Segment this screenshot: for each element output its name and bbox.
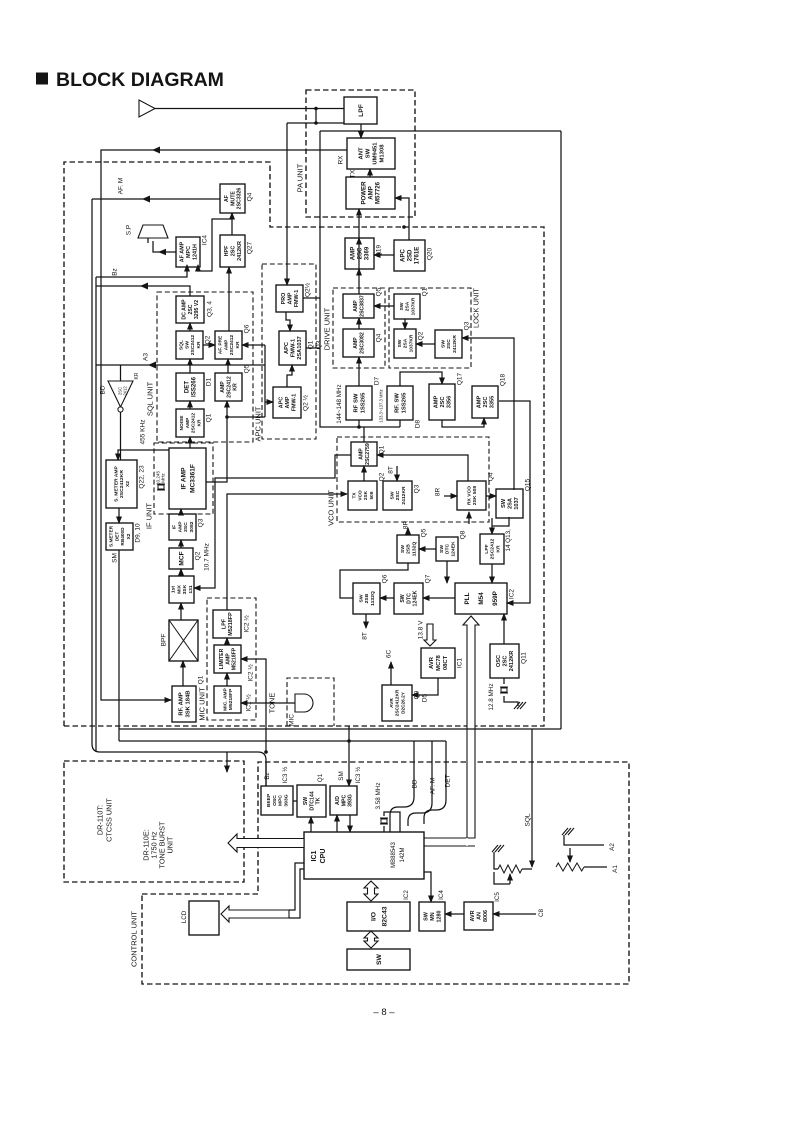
svg-text:A2: A2 [609, 843, 616, 851]
svg-text:IC2: IC2 [403, 890, 410, 900]
svg-text:IC2 ½: IC2 ½ [246, 664, 254, 682]
svg-text:DET: DET [444, 774, 451, 787]
svg-text:D1: D1 [205, 377, 212, 386]
svg-text:AMP2SC3369: AMP2SC3369 [350, 246, 371, 260]
svg-text:D8: D8 [414, 419, 421, 428]
svg-text:Q6: Q6 [381, 574, 388, 583]
svg-text:3.58 MHz: 3.58 MHz [375, 783, 382, 810]
svg-text:BPF: BPF [160, 634, 167, 647]
svg-text:RF SW1SS265: RF SW1SS265 [354, 392, 367, 414]
svg-text:CONTROL UNIT: CONTROL UNIT [130, 911, 139, 967]
svg-text:Q27: Q27 [246, 241, 253, 254]
svg-text:Bz: Bz [264, 772, 271, 779]
svg-text:Q11: Q11 [520, 652, 527, 664]
svg-text:AF. M: AF. M [117, 178, 124, 195]
svg-text:IC3 ½: IC3 ½ [354, 766, 362, 784]
svg-text:DR-110T:: DR-110T: [96, 805, 105, 835]
svg-text:Q3: Q3 [463, 321, 470, 330]
svg-text:RF. AMP3SK 184B: RF. AMP3SK 184B [179, 690, 192, 717]
svg-text:AF. M: AF. M [429, 778, 436, 795]
svg-text:Q1: Q1 [421, 287, 428, 296]
svg-text:IF UNIT: IF UNIT [145, 502, 154, 529]
svg-text:10.7 MHz: 10.7 MHz [203, 543, 210, 571]
svg-text:IC3 ½: IC3 ½ [281, 766, 289, 784]
svg-text:MIC: MIC [288, 714, 295, 726]
svg-text:D7: D7 [373, 376, 380, 385]
svg-text:144~148 MHz: 144~148 MHz [336, 384, 343, 423]
svg-text:Q2: Q2 [204, 335, 211, 344]
svg-text:IC5: IC5 [494, 892, 501, 902]
svg-text:SQL: SQL [524, 813, 531, 826]
svg-text:SM: SM [338, 771, 345, 780]
svg-text:8T: 8T [361, 632, 368, 640]
svg-text:MCF: MCF [178, 551, 185, 565]
svg-text:8T: 8T [387, 466, 394, 474]
svg-text:Q5: Q5 [375, 287, 382, 296]
svg-text:Bz: Bz [111, 268, 118, 276]
svg-text:Q4: Q4 [246, 192, 253, 201]
svg-text:BD: BD [99, 385, 106, 394]
svg-text:Q5: Q5 [420, 528, 427, 537]
svg-text:Q7: Q7 [424, 574, 431, 583]
svg-text:SQL UNIT: SQL UNIT [146, 381, 155, 416]
svg-text:UNIT: UNIT [166, 836, 175, 854]
svg-text:SM: SM [111, 553, 118, 563]
svg-text:Q2: Q2 [417, 331, 424, 340]
svg-text:12.8 MHz: 12.8 MHz [488, 684, 495, 711]
svg-text:LPF: LPF [358, 104, 365, 117]
svg-text:Q3: Q3 [197, 518, 204, 527]
svg-text:Q3, 4: Q3, 4 [206, 301, 213, 317]
svg-text:Q2: Q2 [194, 551, 201, 560]
svg-text:SW: SW [376, 953, 383, 965]
svg-text:SWMN1280: SWMN1280 [424, 910, 443, 922]
svg-text:Q4: Q4 [375, 333, 382, 342]
svg-text:IC4: IC4 [438, 890, 445, 900]
svg-text:Q2 ½: Q2 ½ [301, 394, 309, 410]
svg-text:6C: 6C [385, 650, 392, 659]
svg-text:Q15: Q15 [524, 478, 531, 491]
svg-text:MIC UNIT: MIC UNIT [198, 687, 207, 721]
svg-text:SW2SA1037: SW2SA1037 [501, 497, 520, 510]
svg-text:IC2: IC2 [508, 589, 515, 600]
svg-text:8R: 8R [434, 488, 441, 497]
svg-text:Q13,: Q13, [505, 529, 512, 543]
svg-text:Q18: Q18 [499, 373, 506, 386]
svg-text:Q6: Q6 [243, 324, 250, 333]
svg-text:14: 14 [505, 544, 512, 552]
svg-text:Q8: Q8 [459, 530, 466, 539]
svg-text:8R: 8R [402, 521, 409, 530]
svg-text:A3: A3 [142, 353, 149, 361]
svg-text:AMP2SC3356: AMP2SC3356 [433, 396, 452, 409]
svg-text:455 KHz: 455 KHz [139, 420, 146, 445]
svg-text:RF. SW1SS265: RF. SW1SS265 [395, 392, 408, 414]
svg-text:PA UNIT: PA UNIT [296, 163, 305, 192]
svg-text:Q2: Q2 [378, 472, 385, 481]
svg-text:Q1: Q1 [205, 413, 212, 422]
svg-text:Q5: Q5 [243, 364, 250, 373]
svg-text:Q17: Q17 [456, 372, 463, 385]
svg-text:BLOCK DIAGRAM: BLOCK DIAGRAM [56, 69, 224, 91]
svg-text:S.P: S.P [125, 225, 132, 235]
svg-text:BEEPOSCMPC393G: BEEPOSCMPC393G [266, 793, 290, 807]
svg-text:IC4: IC4 [201, 235, 208, 246]
svg-text:Q1: Q1 [378, 445, 385, 454]
svg-text:LCD: LCD [181, 910, 188, 923]
svg-text:A1: A1 [612, 865, 619, 873]
svg-text:RX VCO2SK 508: RX VCO2SK 508 [466, 486, 478, 506]
svg-text:DRIVE UNIT: DRIVE UNIT [323, 307, 332, 350]
svg-text:BD: BD [411, 779, 418, 788]
svg-text:IC2 ½: IC2 ½ [242, 615, 250, 633]
svg-text:KR: KR [134, 372, 140, 379]
svg-text:PLLM54959P: PLLM54959P [464, 591, 499, 606]
svg-text:LOCK UNIT: LOCK UNIT [472, 288, 481, 328]
svg-text:Q22, 23: Q22, 23 [138, 465, 145, 489]
svg-text:2412: 2412 [123, 386, 128, 396]
svg-text:APC UNIT: APC UNIT [254, 406, 263, 441]
svg-text:IC1: IC1 [456, 658, 463, 669]
svg-text:CTCSS UNIT: CTCSS UNIT [105, 798, 114, 842]
svg-text:C8: C8 [538, 908, 545, 917]
svg-text:D9, 10: D9, 10 [134, 523, 141, 543]
svg-text:RX: RX [337, 155, 344, 165]
svg-text:AMP2SC3355: AMP2SC3355 [476, 396, 495, 409]
svg-text:Q3: Q3 [413, 484, 420, 493]
svg-text:133.3~137.3 MHz: 133.3~137.3 MHz [379, 389, 384, 422]
svg-text:Q20: Q20 [426, 247, 433, 260]
svg-text:Q1: Q1 [317, 773, 324, 782]
svg-text:MHz: MHz [161, 473, 166, 483]
svg-text:Q4: Q4 [487, 472, 494, 481]
svg-text:Q1: Q1 [197, 675, 204, 684]
svg-text:MIC. AMPM5218FP: MIC. AMPM5218FP [222, 687, 234, 710]
svg-text:– 8 –: – 8 – [373, 1007, 395, 1018]
svg-text:A/DMPC393G: A/DMPC393G [335, 794, 353, 807]
svg-text:VCO UNIT: VCO UNIT [327, 490, 336, 526]
svg-text:13.8 V: 13.8 V [417, 620, 424, 639]
svg-text:Q2½: Q2½ [303, 282, 311, 297]
